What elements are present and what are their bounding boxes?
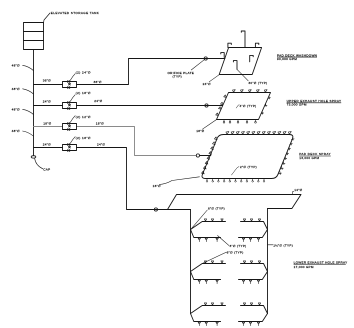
svg-text:17,000 GPM: 17,000 GPM [294, 265, 314, 269]
svg-text:48"∅: 48"∅ [12, 129, 20, 133]
svg-text:14"∅: 14"∅ [294, 188, 302, 192]
svg-text:(2) 18"∅: (2) 18"∅ [76, 136, 91, 140]
svg-text:73,000 GPM: 73,000 GPM [287, 103, 307, 107]
svg-text:LOWER EXHAUST HOLE SPRAY: LOWER EXHAUST HOLE SPRAY [294, 260, 348, 264]
svg-text:18"∅: 18"∅ [196, 129, 204, 133]
svg-text:48"∅: 48"∅ [12, 87, 20, 91]
svg-text:24"∅: 24"∅ [203, 82, 211, 86]
svg-text:2"∅ (TYP): 2"∅ (TYP) [240, 165, 257, 169]
svg-text:ELEVATED STORAGE TANK: ELEVATED STORAGE TANK [51, 11, 100, 15]
svg-text:90,000 GPM: 90,000 GPM [277, 57, 297, 61]
svg-text:36"∅: 36"∅ [94, 80, 102, 84]
svg-text:18"∅: 18"∅ [96, 122, 104, 126]
svg-text:18"∅: 18"∅ [43, 122, 51, 126]
svg-text:24"∅: 24"∅ [94, 99, 102, 103]
svg-text:(2) 18"∅: (2) 18"∅ [76, 91, 91, 95]
svg-text:13,000 GPM: 13,000 GPM [299, 156, 319, 160]
svg-text:6"∅ (TYP): 6"∅ (TYP) [208, 207, 225, 211]
svg-text:48"∅: 48"∅ [12, 107, 20, 111]
svg-text:1¼"∅ (TYP): 1¼"∅ (TYP) [273, 243, 293, 247]
svg-text:24"∅: 24"∅ [97, 142, 105, 146]
svg-text:4"∅ (TYP): 4"∅ (TYP) [240, 104, 257, 108]
svg-text:(TYP): (TYP) [173, 75, 182, 79]
svg-text:24"∅: 24"∅ [43, 142, 51, 146]
svg-text:30"∅ (TYP): 30"∅ (TYP) [248, 81, 267, 85]
svg-text:16"∅: 16"∅ [153, 184, 161, 188]
svg-text:CAP: CAP [43, 168, 50, 172]
svg-text:6"∅ (TYP): 6"∅ (TYP) [227, 251, 244, 255]
svg-text:(2) 12"∅: (2) 12"∅ [76, 115, 91, 119]
svg-text:24"∅: 24"∅ [43, 99, 51, 103]
svg-text:(2) 24"∅: (2) 24"∅ [76, 70, 91, 74]
svg-text:48"∅: 48"∅ [12, 63, 20, 67]
svg-text:36"∅: 36"∅ [43, 79, 51, 83]
svg-text:3"∅ (TYP): 3"∅ (TYP) [230, 244, 247, 248]
